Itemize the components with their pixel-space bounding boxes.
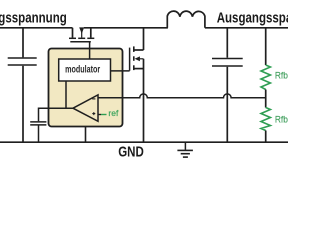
wire modulator to Q2 gate: [111, 70, 130, 72]
svg-text:Rfb: Rfb: [275, 70, 288, 81]
resistor Rfb lower: [261, 108, 288, 143]
inductor L: [167, 11, 205, 28]
svg-text:Rfb: Rfb: [275, 114, 288, 125]
wire Q2 source to ground rail: [143, 59, 145, 142]
svg-text:modulator: modulator: [65, 63, 100, 75]
ground symbol: [177, 142, 193, 157]
capacitor Ccomp: [30, 122, 46, 142]
transistor Q2 (low-side N-MOSFET): [130, 28, 144, 71]
resistor Rfb upper: [261, 28, 288, 90]
op-amp error amplifier: [73, 95, 98, 121]
wire controller box ground: [85, 127, 87, 143]
controller IC block: [49, 49, 123, 127]
svg-text:Ausgangsspannung: Ausgangsspannung: [217, 9, 288, 26]
wire modulator to op-amp output: [65, 81, 67, 108]
transistor Q1 (high-side P-MOSFET): [69, 27, 94, 41]
wire feedback line with hops: [98, 94, 266, 98]
modulator block: [59, 59, 111, 81]
capacitor Cout: [212, 28, 243, 142]
wire ground rail: [0, 141, 288, 143]
wire output rail: [205, 27, 288, 29]
capacitor Cin: [8, 28, 37, 142]
svg-text:Eingangsspannung: Eingangsspannung: [0, 9, 67, 26]
wire op-amp output to compensation cap: [39, 108, 74, 121]
svg-text:GND: GND: [118, 143, 144, 160]
wire input rail left: [0, 27, 73, 29]
wire ref to op-amp plus input: [98, 108, 119, 118]
wire feedback node: [265, 90, 267, 108]
svg-text:ref: ref: [108, 108, 119, 118]
wire Q1 gate to modulator: [89, 42, 91, 59]
wire switch-node rail: [84, 27, 168, 29]
